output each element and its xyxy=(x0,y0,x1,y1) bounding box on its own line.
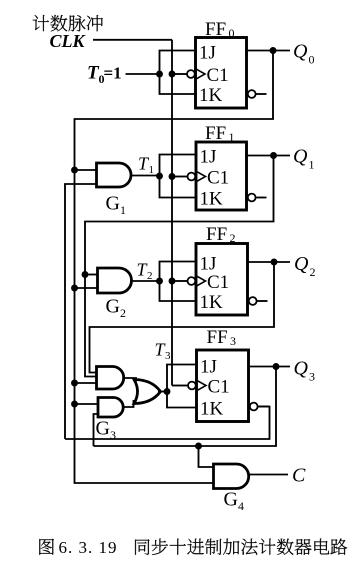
node Q0 feedback junction xyxy=(270,47,277,54)
svg-text:1: 1 xyxy=(229,130,235,144)
FF1 clock bubble xyxy=(188,173,196,181)
svg-text:=1: =1 xyxy=(104,64,122,83)
node Q3 feedback junction xyxy=(273,363,280,370)
svg-text:1J: 1J xyxy=(199,43,216,64)
svg-text:G: G xyxy=(106,296,120,318)
OR gate G3 xyxy=(134,380,161,404)
wire Q3 riser to G3 lower bottom input xyxy=(94,414,99,446)
caption 图 xyxy=(39,539,54,555)
svg-text:C1: C1 xyxy=(207,272,229,293)
svg-text:FF: FF xyxy=(205,123,226,144)
AND gate G2 xyxy=(98,268,132,293)
AND gate G3 upper xyxy=(97,367,124,390)
wire CLK to FF1 bubble xyxy=(172,176,188,178)
svg-text:2: 2 xyxy=(230,231,236,245)
node Q0 to G3 lower xyxy=(71,401,78,408)
FF1 clock triangle xyxy=(196,171,206,182)
wire OR output T3 xyxy=(158,391,167,393)
wire G3 lower output to OR xyxy=(123,400,133,407)
svg-text:G: G xyxy=(96,418,110,440)
AND gate G1 xyxy=(97,163,132,187)
svg-text:C: C xyxy=(292,465,306,487)
wire Q1 output xyxy=(247,155,291,157)
node Q1 feedback junction xyxy=(270,152,277,159)
svg-text:1: 1 xyxy=(120,203,126,217)
wire CLK to FF2 bubble xyxy=(172,280,188,282)
wire Q2 feedback to left bus xyxy=(90,262,275,373)
flip-flop FF0 box xyxy=(196,38,247,109)
node CLK to FF0 C1 xyxy=(169,71,176,78)
svg-text:CLK: CLK xyxy=(50,31,87,51)
svg-text:Q: Q xyxy=(293,41,308,63)
svg-text:0: 0 xyxy=(309,53,315,67)
svg-text:2: 2 xyxy=(120,306,126,320)
FF0 inverted output bubble and stub xyxy=(248,90,256,98)
svg-text:3: 3 xyxy=(230,334,236,348)
wire G2 output T2 xyxy=(132,280,160,282)
wire G4 output C xyxy=(249,474,288,476)
svg-text:1: 1 xyxy=(149,164,155,176)
svg-text:G: G xyxy=(106,193,120,215)
svg-text:1K: 1K xyxy=(200,189,224,210)
wire Q0 bus to G1 top input xyxy=(75,169,97,171)
svg-text:FF: FF xyxy=(207,327,228,348)
wire Q1 feedback to left bus xyxy=(85,156,274,377)
clock bus vertical wire xyxy=(171,40,173,386)
node T2 junction xyxy=(156,278,163,285)
wire Q0 bus to G3 lower top input xyxy=(75,403,99,405)
node CLK to FF1 C1 xyxy=(169,173,176,180)
wire CLK to FF0 bubble xyxy=(172,73,187,75)
node Q0 to G1 xyxy=(71,167,78,174)
flip-flop FF1 box xyxy=(196,142,247,210)
wire G1 output T1 xyxy=(131,175,160,177)
svg-text:Q: Q xyxy=(294,253,309,275)
svg-text:4: 4 xyxy=(238,499,244,513)
AND gate G3 lower xyxy=(98,398,123,418)
flip-flop FF3 box xyxy=(197,350,249,422)
wire Q3 to G4 top input xyxy=(199,446,214,467)
FF0 J-K tie wire xyxy=(160,51,196,95)
wire T0 to J-K tie xyxy=(126,73,160,75)
svg-text:3: 3 xyxy=(165,350,171,362)
svg-text:0: 0 xyxy=(229,26,235,40)
wire Q0 bus to G2 bottom input xyxy=(75,287,98,289)
wire nQ3 feedback wrap xyxy=(65,407,270,440)
flip-flop FF2 box xyxy=(196,244,248,316)
FF1 inverted output bubble and stub xyxy=(248,194,256,202)
wire Q2 output xyxy=(248,261,291,263)
FF2 J-K tie wire xyxy=(160,262,197,302)
svg-text:2: 2 xyxy=(310,265,316,279)
CLK wire to clock bus xyxy=(93,39,172,41)
wire Q1 bus to G2 top input xyxy=(85,274,98,276)
node Q3 to G4 xyxy=(195,443,202,450)
caption 同步十进制加法计数器电路 xyxy=(135,539,347,555)
text 计数脉冲 (counting pulse) xyxy=(33,15,103,31)
svg-text:1K: 1K xyxy=(199,85,223,106)
FF3 clock triangle xyxy=(197,380,207,391)
svg-text:Q: Q xyxy=(293,146,308,168)
FF3 clock bubble xyxy=(188,382,196,390)
svg-text:1K: 1K xyxy=(200,399,224,420)
wire Q0 output xyxy=(247,50,291,52)
FF3 inverted output bubble and stub xyxy=(250,403,258,411)
svg-text:C1: C1 xyxy=(207,168,229,189)
wire nQ3 bus to G1 bottom input xyxy=(65,184,97,439)
node CLK to FF2 C1 xyxy=(169,278,176,285)
wire Q0 bus to G3 upper bottom input xyxy=(75,382,97,384)
svg-text:1K: 1K xyxy=(200,292,224,313)
node Q0 to G2 xyxy=(71,285,78,292)
svg-text:6. 3. 19: 6. 3. 19 xyxy=(59,538,118,557)
svg-text:1J: 1J xyxy=(200,357,217,378)
FF2 clock triangle xyxy=(196,276,206,287)
FF1 J-K tie wire xyxy=(160,155,197,198)
svg-text:2: 2 xyxy=(147,270,153,282)
wire G3 upper output to OR xyxy=(124,378,136,382)
svg-text:FF: FF xyxy=(205,19,226,40)
wire CLK to FF3 bubble xyxy=(172,385,188,387)
svg-text:3: 3 xyxy=(309,370,315,384)
node T3 junction xyxy=(164,388,171,395)
wire Q0 feedback to left bus xyxy=(75,51,274,484)
FF0 clock triangle xyxy=(196,69,206,80)
FF0 clock bubble xyxy=(187,70,195,78)
FF3 J-K tie wire xyxy=(167,365,197,408)
wire Q3 output xyxy=(249,366,291,368)
wire Q3 feedback wrap xyxy=(94,367,277,447)
svg-text:1: 1 xyxy=(309,158,315,172)
node Q0 to G3 upper xyxy=(71,380,78,387)
AND gate G4 xyxy=(214,464,249,489)
FF2 clock bubble xyxy=(188,277,196,285)
FF2 inverted output bubble and stub xyxy=(249,297,257,305)
svg-text:C1: C1 xyxy=(208,377,230,398)
svg-text:FF: FF xyxy=(206,224,227,245)
svg-text:1J: 1J xyxy=(200,147,217,168)
node Q1 to G2 xyxy=(82,271,89,278)
svg-text:G: G xyxy=(224,489,238,511)
svg-text:Q: Q xyxy=(294,358,309,380)
svg-text:C1: C1 xyxy=(207,65,229,86)
node T0 junction xyxy=(156,71,163,78)
node T1 junction xyxy=(156,173,163,180)
node Q2 feedback junction xyxy=(271,259,278,266)
